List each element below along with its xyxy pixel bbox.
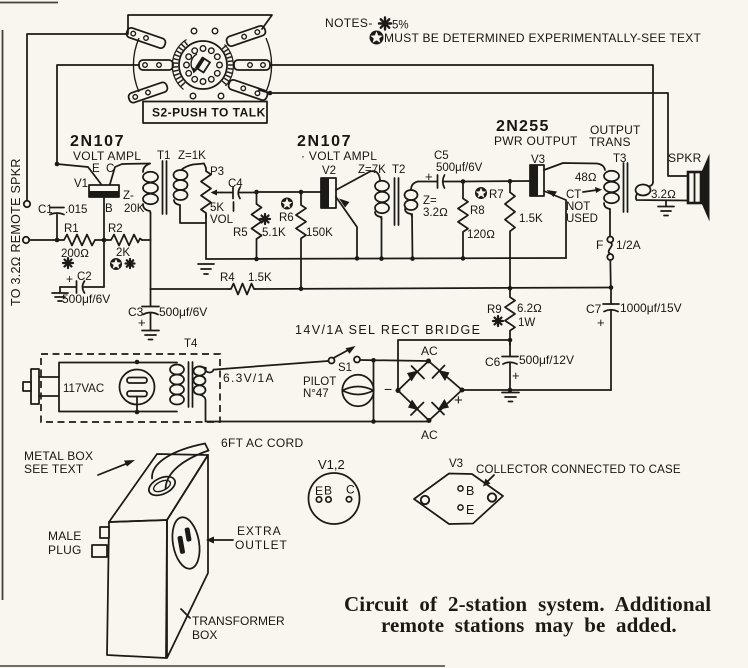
extra outlet oval	[169, 515, 204, 571]
node bridge minus feed	[508, 338, 513, 343]
svg-text:500μf/6V: 500μf/6V	[62, 292, 110, 306]
wire C1 to R1 bus	[56, 215, 58, 241]
wire junction down to AC bottom line	[373, 360, 375, 421]
svg-text:20K: 20K	[124, 203, 145, 215]
node C6/bridge+/ground junction	[508, 388, 513, 393]
ground at P3/bus1	[198, 264, 214, 274]
node R7/R9 on bus2	[508, 286, 513, 291]
convenience outlet symbol	[120, 370, 155, 413]
svg-text:B: B	[105, 203, 113, 215]
transistor V2 body	[321, 178, 336, 208]
svg-text:SEE TEXT: SEE TEXT	[24, 462, 84, 476]
svg-text:NOT: NOT	[566, 201, 590, 213]
wire 6.3V to S1	[214, 361, 329, 370]
symbol star R5	[260, 214, 270, 224]
svg-text:500μf/6V: 500μf/6V	[436, 162, 483, 174]
resistor R7	[505, 181, 515, 288]
node remote speaker terminal A	[24, 201, 30, 207]
transformer box pointer tick	[181, 609, 190, 618]
wire C5 to V3 base	[463, 180, 530, 183]
V3 mounting hole left	[421, 496, 429, 504]
wire T1 primary bottom to R2	[150, 213, 152, 240]
node bridge AC bottom	[427, 418, 432, 423]
svg-text:150K: 150K	[306, 227, 333, 239]
collector pointer arrow	[483, 475, 494, 487]
svg-text:200Ω: 200Ω	[61, 248, 89, 260]
capacitor C5	[418, 175, 463, 188]
capacitor C6	[502, 340, 518, 390]
svg-text:+: +	[512, 368, 520, 383]
potentiometer P3	[201, 164, 211, 219]
transformer T2 secondary winding	[405, 182, 419, 217]
svg-text:R1: R1	[64, 223, 79, 235]
svg-text:SPKR: SPKR	[668, 151, 702, 165]
transformer T4 primary winding	[170, 365, 184, 405]
capacitor C4	[222, 188, 256, 199]
node junction C1/R1	[55, 238, 60, 243]
node remote speaker terminal B	[23, 237, 29, 243]
svg-text:MUST BE DETERMINED EXPERIMENTA: MUST BE DETERMINED EXPERIMENTALLY-SEE TE…	[384, 31, 702, 45]
pilot lamp circle	[342, 375, 373, 406]
switch S2 lower-left lug	[127, 81, 168, 103]
svg-text:Z=: Z=	[423, 195, 437, 207]
wire from S2 upper-left lug to top bus	[128, 15, 272, 33]
symbol star R2	[126, 259, 135, 268]
male plug stubs	[92, 527, 109, 557]
node bridge AC top	[426, 359, 431, 364]
symbol experimental circle-star	[370, 31, 384, 45]
pilot lamp filament lens	[343, 387, 374, 395]
svg-text:2N107: 2N107	[70, 133, 125, 150]
capacitor C3	[142, 289, 159, 330]
svg-text:6.2Ω: 6.2Ω	[517, 303, 542, 315]
ground at speaker line	[658, 201, 674, 216]
svg-text:1/2A: 1/2A	[616, 238, 641, 252]
rectifier bridge diamond	[398, 361, 462, 421]
svg-text:AC: AC	[421, 344, 438, 358]
svg-text:VOL: VOL	[210, 214, 234, 226]
svg-text:C5: C5	[434, 150, 449, 162]
metal box pointer arrow	[98, 460, 135, 475]
transformer T2 primary winding	[375, 181, 389, 219]
wire C7 bottom to bus3	[610, 310, 612, 390]
svg-text:EXTRA: EXTRA	[237, 524, 282, 538]
svg-text:120Ω: 120Ω	[467, 229, 495, 241]
wire R1/R2 bus	[29, 239, 60, 241]
svg-text:+: +	[66, 272, 73, 286]
wire P3 bottom to ground bus	[205, 215, 207, 260]
wire S2 lower-right lug to speaker line (lower)	[259, 90, 688, 176]
svg-text:· VOLT AMPL: · VOLT AMPL	[301, 149, 377, 163]
node R8 top	[461, 179, 466, 184]
diode bottom-right	[432, 399, 449, 415]
switch S2 contact ring dots	[184, 46, 223, 85]
svg-text:+: +	[138, 315, 146, 330]
svg-text:remote stations may be added.: remote stations may be added.	[381, 613, 677, 637]
node R5 bottom	[254, 257, 259, 262]
svg-text:T4: T4	[184, 338, 198, 350]
wire bridge minus to R9/C6 node	[398, 340, 510, 390]
svg-text:R4: R4	[220, 272, 235, 284]
ground at C2	[52, 287, 68, 301]
switch S2 center wiper	[196, 58, 210, 73]
AC line plug	[23, 369, 59, 404]
svg-text:E: E	[315, 484, 323, 498]
switch S2 rotor circle	[179, 41, 227, 89]
svg-text:V1: V1	[74, 178, 88, 190]
transistor V3 body	[530, 165, 544, 196]
node junction at S2 lower-right	[268, 91, 273, 96]
wire from S2 left lug to C1 branch	[57, 65, 139, 164]
transformer T3 secondary winding and speaker feed	[636, 182, 689, 201]
resistor R4	[229, 284, 256, 295]
diode top-right	[433, 366, 450, 382]
node T2 primary bottom	[379, 256, 384, 261]
wire S2 right lug to speaker line (upper)	[270, 65, 653, 182]
transformer T2 core	[395, 178, 399, 225]
V3 pin E	[458, 505, 463, 510]
node outlet bottom	[135, 410, 140, 415]
resistor R8	[458, 182, 468, 259]
capacitor C2	[60, 281, 104, 293]
resistor R2	[108, 235, 142, 246]
svg-text:−: −	[384, 381, 392, 397]
switch S2 lower-right lug	[227, 79, 268, 101]
svg-text:NOTES-: NOTES-	[325, 16, 373, 30]
svg-text:48Ω: 48Ω	[575, 172, 597, 184]
resistor R1	[60, 235, 95, 246]
diode top-left	[407, 366, 424, 382]
svg-text:500μf/6V: 500μf/6V	[159, 305, 207, 319]
switch S2 upper-left lug	[125, 27, 166, 49]
svg-text:N°47: N°47	[303, 388, 329, 400]
svg-text:117VAC: 117VAC	[63, 383, 104, 395]
transformer T4 secondary winding	[194, 366, 206, 421]
svg-text:5K: 5K	[210, 202, 224, 214]
svg-text:T1: T1	[157, 150, 170, 162]
wire C7 top stub	[610, 288, 612, 305]
svg-text:.015: .015	[65, 204, 87, 216]
wire C4 to V2 base	[256, 191, 321, 193]
primary loop rectangle	[59, 363, 177, 412]
transformer box top face	[109, 454, 208, 522]
switch S2 right stator wedge (hatched)	[222, 45, 234, 87]
svg-text:BOX: BOX	[192, 628, 217, 642]
svg-text:B: B	[466, 484, 474, 498]
V2 arrow	[339, 199, 350, 208]
svg-text:VOLT AMPL: VOLT AMPL	[73, 149, 141, 163]
svg-text:R6: R6	[279, 212, 294, 224]
V3 mounting hole right	[488, 493, 496, 501]
svg-text:2N107: 2N107	[297, 133, 352, 150]
AC cord curves	[152, 444, 209, 490]
node bridge plus	[460, 388, 465, 393]
symbol star R1	[63, 258, 73, 268]
switch S2 upper-right lug	[225, 25, 266, 47]
node outlet top	[135, 360, 140, 365]
diode bottom-left	[408, 400, 424, 416]
svg-text:S1: S1	[338, 362, 352, 374]
wire S1 to bridge AC top	[360, 360, 428, 361]
wire lower bus (bus2) right segment	[256, 288, 612, 290]
symbol star R9	[493, 316, 503, 326]
resistor R6	[296, 192, 306, 289]
symbol circle-star R6	[281, 198, 293, 210]
svg-text:PILOT: PILOT	[303, 376, 336, 388]
svg-text:C4: C4	[228, 178, 243, 190]
wire V1 base lead	[103, 197, 105, 287]
svg-text:AC: AC	[421, 428, 438, 442]
switch S1	[329, 346, 361, 364]
svg-text:3.2Ω: 3.2Ω	[651, 189, 676, 201]
wire V1 collector lead to T1	[110, 164, 150, 185]
wire AC bottom line	[206, 421, 430, 423]
svg-text:PWR OUTPUT: PWR OUTPUT	[494, 134, 578, 148]
svg-text:C2: C2	[77, 271, 92, 283]
resistor R9	[505, 288, 515, 345]
node V2 collector on bus1	[355, 256, 360, 261]
svg-text:R5: R5	[233, 227, 248, 239]
node R7 top	[508, 179, 513, 184]
transformer box right face	[167, 455, 208, 658]
svg-text:TRANS: TRANS	[589, 135, 631, 149]
wire V1 emitter lead	[57, 164, 101, 184]
svg-text:T2: T2	[392, 164, 405, 176]
svg-text:C1: C1	[38, 204, 53, 216]
svg-text:5.1K: 5.1K	[262, 227, 286, 239]
capacitor C1	[50, 208, 64, 215]
metal box dashed outline	[41, 354, 220, 422]
node R6 top	[299, 190, 304, 195]
svg-text:+: +	[454, 392, 463, 409]
switch S2 top mounting holes	[191, 28, 197, 34]
V3 case outline	[414, 474, 503, 525]
P3 wiper arrow	[211, 190, 223, 196]
symbol circle-star R2	[110, 258, 122, 270]
svg-text:V1,2: V1,2	[318, 457, 345, 472]
svg-text:CT: CT	[566, 189, 581, 201]
transistor V1 body	[89, 185, 119, 197]
node R8 bottom	[461, 256, 466, 261]
node junction C1/V1 emitter	[55, 162, 60, 167]
transformer T3 core	[624, 163, 628, 212]
wire T2 secondary bottom to bus1	[411, 214, 414, 259]
svg-text:METAL BOX: METAL BOX	[24, 449, 93, 463]
svg-text:1W: 1W	[518, 317, 535, 329]
svg-text:500μf/12V: 500μf/12V	[519, 353, 574, 367]
svg-text:MALE: MALE	[48, 529, 81, 543]
svg-text:T3: T3	[613, 153, 626, 165]
wire V2 collector lead to bus1	[336, 197, 357, 259]
symbol circle-star R7	[475, 187, 487, 199]
node R5 top	[254, 190, 259, 195]
svg-text:R9: R9	[487, 304, 502, 316]
cord grommet oval	[146, 473, 178, 499]
svg-text:+: +	[597, 315, 605, 330]
transformer T1 primary winding	[143, 164, 158, 214]
V1/V2 pinout circle	[309, 473, 360, 524]
svg-text:1.5K: 1.5K	[519, 213, 543, 225]
svg-text:2K: 2K	[116, 247, 130, 259]
svg-text:C6: C6	[485, 355, 501, 369]
capacitor C7	[603, 304, 619, 312]
svg-text:R8: R8	[470, 205, 485, 217]
svg-text:B: B	[324, 484, 332, 498]
svg-text:PLUG: PLUG	[48, 543, 81, 557]
svg-text:V2: V2	[322, 165, 336, 177]
wire V3 emitter lead to T3	[544, 163, 605, 170]
node T2 secondary bottom	[410, 256, 415, 261]
svg-text:1.5K: 1.5K	[248, 272, 272, 284]
svg-text:2N255: 2N255	[496, 118, 550, 135]
svg-text:OUTLET: OUTLET	[235, 538, 288, 552]
svg-text:COLLECTOR CONNECTED TO CASE: COLLECTOR CONNECTED TO CASE	[476, 464, 681, 476]
svg-text:5%: 5%	[392, 20, 409, 32]
wire V2 emitter lead to T2	[336, 171, 380, 190]
speaker symbol	[688, 154, 710, 222]
wire T2 primary bottom to bus1	[381, 217, 383, 259]
switch S2 left stator wedge (hatched)	[172, 40, 187, 90]
ground at C3	[142, 331, 159, 340]
svg-text:Z=7K: Z=7K	[358, 164, 386, 176]
wire V3 collector lead to bus1	[544, 191, 566, 258]
svg-text:TRANSFORMER: TRANSFORMER	[192, 614, 285, 628]
svg-text:USED: USED	[566, 213, 598, 225]
V3 pin B	[458, 486, 463, 491]
symbol 5% star	[379, 18, 391, 30]
node on AC bottom line	[371, 419, 376, 424]
svg-text:3.2Ω: 3.2Ω	[423, 207, 448, 219]
switch S2 bottom mounting holes	[190, 93, 196, 99]
svg-text:E: E	[466, 503, 474, 517]
transformer T3 primary winding	[604, 171, 619, 213]
svg-text:F: F	[596, 238, 603, 252]
transformer box left face	[107, 520, 167, 658]
svg-text:6FT AC CORD: 6FT AC CORD	[221, 436, 303, 450]
pin dots V1,2	[316, 497, 351, 503]
svg-text:1000μf/15V: 1000μf/15V	[620, 301, 682, 315]
wire top bus to left remote terminal	[27, 34, 128, 200]
transformer T1 secondary winding	[174, 164, 207, 224]
node S1 output junction	[371, 358, 376, 363]
svg-text:C7: C7	[586, 302, 602, 316]
wire lower bus (bus2) left segment	[151, 288, 230, 290]
svg-text:Z-: Z-	[123, 190, 134, 202]
svg-text:V3: V3	[449, 458, 463, 470]
svg-text:Z=1K: Z=1K	[178, 150, 206, 162]
node R6 bottom on bus2	[299, 287, 304, 292]
svg-text:TO 3.2Ω REMOTE SPKR: TO 3.2Ω REMOTE SPKR	[9, 158, 23, 306]
ground below C6	[502, 390, 519, 402]
transformer T4 core	[189, 362, 193, 407]
node bridge minus	[396, 388, 401, 393]
svg-text:R7: R7	[489, 189, 504, 201]
node fuse/bus2/C7 junction	[609, 285, 614, 290]
svg-text:6.3V/1A: 6.3V/1A	[223, 371, 275, 385]
V3 arrow	[547, 190, 558, 197]
svg-text:C: C	[346, 483, 355, 497]
switch S2 outer right arc	[266, 38, 272, 92]
switch S2 outer left arc	[133, 38, 139, 92]
svg-text:P3: P3	[210, 166, 224, 178]
switch S2 rotation arrow	[191, 54, 197, 70]
wire R2 node down to lower bus	[150, 240, 152, 289]
switch S2 left lug	[139, 60, 173, 70]
node junction V1 base / R1 / R2	[102, 238, 107, 243]
svg-text:S2-PUSH TO TALK: S2-PUSH TO TALK	[152, 106, 266, 120]
fuse F 1/2A	[607, 213, 613, 288]
wire bus3 (bridge+ to C7)	[462, 389, 611, 391]
svg-text:R2: R2	[108, 223, 123, 235]
svg-text:14V/1A SEL RECT BRIDGE: 14V/1A SEL RECT BRIDGE	[295, 323, 481, 337]
wire emitter bus (bus1)	[206, 258, 566, 259]
switch S2 label box	[143, 102, 267, 124]
extra outlet pointer arrow	[206, 537, 233, 544]
switch S2 right lug	[234, 60, 270, 70]
transformer T1 core	[163, 161, 167, 214]
resistor R5	[252, 192, 262, 259]
6.3V loop terminal	[200, 366, 214, 372]
